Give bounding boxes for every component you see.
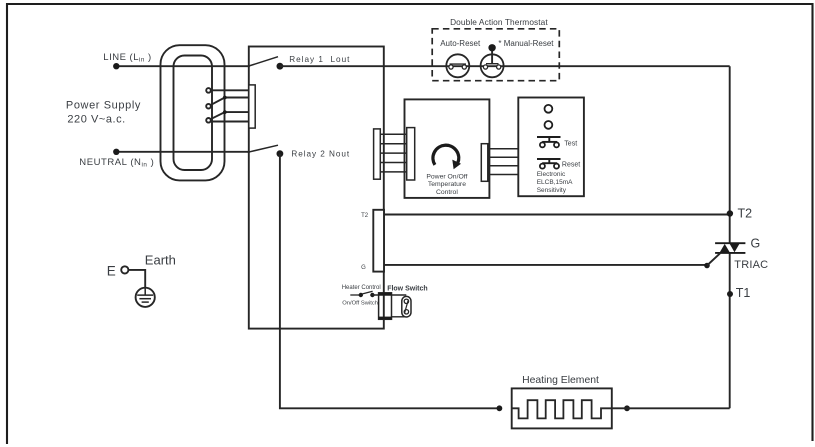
svg-text:Heating Element: Heating Element xyxy=(522,375,599,386)
svg-text:G: G xyxy=(751,237,761,251)
svg-text:On/Off Switch: On/Off Switch xyxy=(342,301,378,307)
svg-text:Double Action Thermostat: Double Action Thermostat xyxy=(450,17,548,27)
svg-text:220 V~a.c.: 220 V~a.c. xyxy=(67,114,125,126)
svg-text:LINE (Lin ): LINE (Lin ) xyxy=(103,52,151,64)
svg-text:Electronic: Electronic xyxy=(537,171,566,178)
svg-text:Temperature: Temperature xyxy=(428,181,466,188)
svg-text:T1: T1 xyxy=(736,286,751,300)
svg-text:E: E xyxy=(107,264,116,279)
svg-text:Flow Switch: Flow Switch xyxy=(387,285,427,292)
svg-text:Relay 1 Lout: Relay 1 Lout xyxy=(289,55,350,64)
svg-text:Earth: Earth xyxy=(145,253,176,268)
svg-text:Auto-Reset: Auto-Reset xyxy=(440,39,481,48)
svg-text:ELCB,15mA: ELCB,15mA xyxy=(537,179,573,186)
svg-text:T2: T2 xyxy=(361,213,369,219)
svg-text:Reset: Reset xyxy=(562,162,580,169)
svg-text:TRIAC: TRIAC xyxy=(734,259,768,271)
svg-text:Sensitivity: Sensitivity xyxy=(537,187,567,194)
svg-text:Power On/Off: Power On/Off xyxy=(426,174,467,181)
svg-text:* Manual-Reset: * Manual-Reset xyxy=(498,39,554,48)
svg-text:Control: Control xyxy=(436,189,458,196)
svg-text:G: G xyxy=(361,265,366,271)
svg-text:Test: Test xyxy=(564,141,577,148)
svg-text:Heater Control: Heater Control xyxy=(342,285,381,291)
svg-text:T2: T2 xyxy=(738,207,753,221)
svg-text:Relay 2 Nout: Relay 2 Nout xyxy=(291,150,350,159)
svg-text:Power Supply: Power Supply xyxy=(66,99,141,111)
